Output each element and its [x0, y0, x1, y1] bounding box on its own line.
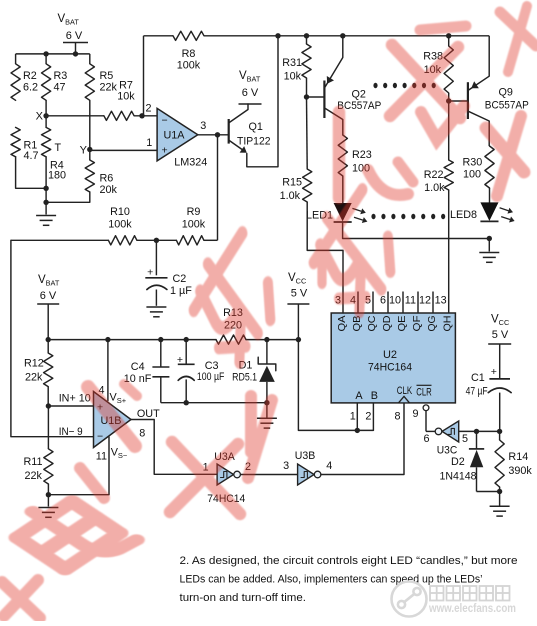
- svg-text:R3: R3: [54, 70, 68, 82]
- node D1 tap: [264, 337, 269, 342]
- node C3 bottom: [184, 400, 189, 405]
- svg-text:R22: R22: [424, 169, 444, 181]
- svg-text:LM324: LM324: [174, 156, 207, 168]
- wire U1B pin11 to R11 bottom: [48, 437, 109, 495]
- svg-text:QH: QH: [443, 316, 454, 332]
- node IN+ junction: [46, 403, 51, 408]
- wire R9 right to output column: [204, 239, 218, 241]
- svg-text:U2: U2: [383, 349, 397, 361]
- svg-text:QF: QF: [412, 316, 423, 332]
- svg-text:22k: 22k: [100, 82, 118, 94]
- svg-text:4.7: 4.7: [24, 150, 39, 162]
- wire U3B to CLK: [321, 403, 404, 475]
- svg-text:+: +: [162, 145, 168, 157]
- svg-text:CLK: CLK: [397, 385, 413, 397]
- svg-text:5 V: 5 V: [291, 288, 308, 300]
- svg-text:10: 10: [389, 295, 401, 307]
- svg-text:C1: C1: [471, 372, 485, 384]
- svg-text:R6: R6: [100, 173, 114, 185]
- svg-text:turn-on and turn-off time.: turn-on and turn-off time.: [180, 592, 307, 604]
- svg-text:Y: Y: [80, 145, 88, 157]
- svg-text:2. As designed, the circuit co: 2. As designed, the circuit controls eig…: [180, 555, 518, 567]
- svg-text:12: 12: [419, 295, 431, 307]
- wire to ground: [266, 403, 268, 418]
- node D2 tap: [474, 429, 479, 434]
- IC U2 74HC164: [331, 313, 455, 403]
- resistor R15: [280, 97, 312, 250]
- svg-text:1.0k: 1.0k: [424, 182, 445, 194]
- svg-text:11: 11: [405, 295, 416, 307]
- svg-text:6 V: 6 V: [242, 87, 259, 99]
- svg-text:IN− 9: IN− 9: [59, 426, 83, 438]
- svg-text:R30: R30: [463, 157, 483, 169]
- wire U1B output to U3A: [131, 420, 217, 475]
- node Y: [87, 147, 92, 152]
- svg-text:6: 6: [423, 433, 429, 445]
- wire R30 to LED8: [489, 188, 491, 203]
- svg-text:3: 3: [283, 460, 289, 472]
- node D1 bottom: [264, 400, 269, 405]
- svg-text:R5: R5: [100, 70, 114, 82]
- node X: [43, 113, 48, 118]
- wire to ground: [499, 492, 501, 506]
- svg-text:R11: R11: [24, 456, 43, 468]
- node C4 tap: [158, 337, 163, 342]
- svg-text:D2: D2: [451, 456, 465, 468]
- svg-text:C2: C2: [173, 273, 187, 285]
- svg-text:22k: 22k: [25, 371, 43, 383]
- svg-text:1: 1: [350, 411, 356, 423]
- svg-text:6 V: 6 V: [66, 30, 83, 42]
- svg-text:R15: R15: [282, 177, 302, 189]
- node A-B tie: [355, 428, 360, 433]
- pin 2 (B) of U2: [365, 403, 373, 431]
- wire to ground: [47, 495, 49, 507]
- transistor Q9 BC557AP: [468, 76, 529, 121]
- svg-text:8: 8: [394, 411, 400, 423]
- node pin2 junction: [139, 113, 144, 118]
- svg-text:10k: 10k: [117, 91, 135, 103]
- wire base junction to Q2: [307, 96, 325, 98]
- svg-text:www.elecfans.com: www.elecfans.com: [428, 603, 516, 615]
- wire LED1 cathode to bottom rail: [343, 222, 490, 239]
- resistor R6: [85, 160, 117, 196]
- node R1-R4: [43, 186, 48, 191]
- resistor R30: [463, 146, 495, 188]
- svg-text:C3: C3: [205, 360, 219, 372]
- node R11 bottom: [46, 492, 51, 497]
- node Vcc tap: [296, 337, 301, 342]
- wire top-left rail: [16, 53, 90, 55]
- svg-text:T: T: [55, 142, 62, 154]
- svg-text:BC557AP: BC557AP: [485, 100, 529, 112]
- wire R9 to R10: [137, 239, 177, 241]
- node output: [215, 132, 220, 137]
- svg-text:74HC164: 74HC164: [368, 362, 412, 374]
- wire R3-R4 column with node X: [45, 100, 47, 127]
- wire R38 to base junction: [448, 93, 450, 101]
- svg-text:1N4148: 1N4148: [440, 470, 477, 482]
- svg-text:Q9: Q9: [499, 87, 513, 99]
- svg-text:QE: QE: [397, 315, 408, 331]
- svg-text:R23: R23: [352, 149, 372, 161]
- wire R22 to U2 pin13: [448, 190, 450, 313]
- wire Q9 emitter riser: [488, 36, 490, 76]
- resistor R8: [173, 31, 204, 71]
- svg-text:5: 5: [462, 433, 468, 445]
- ground (C2): [146, 306, 166, 308]
- pin 5 (QC) of U2: [365, 292, 378, 332]
- dotted row between LED1 and LED8: [371, 214, 445, 219]
- transistor Q2 BC557AP: [324, 58, 381, 120]
- wire R15 jog to pin3: [307, 250, 343, 313]
- inverter U3B 74HC14: [283, 450, 332, 485]
- svg-text:8: 8: [139, 428, 145, 440]
- wire U1A output: [198, 134, 229, 136]
- svg-text:U1A: U1A: [164, 130, 186, 142]
- svg-text:4: 4: [326, 460, 332, 472]
- svg-text:CLR: CLR: [416, 386, 432, 398]
- wire U3A to U3B: [240, 474, 297, 476]
- wire R6 bottom to ground stem: [46, 192, 90, 202]
- op-amp U1A: [145, 103, 207, 169]
- svg-text:R9: R9: [187, 206, 201, 218]
- dotted row between Q2 and Q9: [373, 83, 435, 88]
- pin 1 (A) of U2: [350, 403, 358, 431]
- svg-text:Q1: Q1: [249, 121, 263, 133]
- node R31 top: [304, 33, 309, 38]
- node C1/R14 tap: [497, 429, 502, 434]
- wire pin2 junction up to R8: [143, 36, 145, 116]
- svg-text:2: 2: [365, 411, 371, 423]
- pin 3 (QA) of U2: [335, 295, 348, 332]
- capacitor C1: [466, 366, 512, 431]
- wire R1 bottom to R4 column: [16, 157, 46, 189]
- wire R4 to ground: [45, 157, 47, 215]
- wire R31 to base junction: [306, 78, 308, 97]
- svg-text:6 V: 6 V: [40, 290, 57, 302]
- svg-text:20k: 20k: [100, 184, 118, 196]
- caption text: [180, 555, 518, 604]
- svg-text:R31: R31: [282, 57, 302, 69]
- resistor R7: [104, 79, 135, 120]
- resistor R13: [216, 307, 246, 344]
- resistor R23: [338, 135, 372, 176]
- svg-text:LED8: LED8: [450, 209, 477, 221]
- node C3 tap: [184, 337, 189, 342]
- svg-text:X: X: [36, 111, 44, 123]
- svg-text:100: 100: [463, 169, 481, 181]
- resistor R31: [282, 36, 311, 83]
- resistor R2: [11, 54, 38, 100]
- wire supply rail: [48, 339, 216, 341]
- wire Q9 collector to R30: [488, 121, 490, 146]
- wire R8 to emitter rail: [204, 35, 489, 37]
- wire R10 to left rail: [11, 239, 109, 241]
- power symbol VCC 5V (right): [488, 314, 511, 379]
- ground (divider): [36, 215, 56, 217]
- svg-text:11: 11: [96, 451, 107, 463]
- svg-text:QD: QD: [382, 316, 393, 332]
- node junction rail-VBAT: [73, 51, 78, 56]
- resistor R12: [24, 340, 53, 406]
- LED LED1: [306, 204, 367, 224]
- svg-text:OUT: OUT: [137, 408, 160, 420]
- svg-text:1: 1: [146, 137, 152, 149]
- svg-text:A: A: [355, 390, 363, 402]
- svg-text:180: 180: [48, 170, 66, 182]
- power symbol VBAT 6V (left): [37, 274, 60, 340]
- svg-text:RD5.1: RD5.1: [232, 372, 257, 384]
- transistor Q1 TIP122: [229, 104, 271, 153]
- svg-text:−: −: [162, 114, 168, 126]
- svg-text:47 µF: 47 µF: [466, 386, 488, 398]
- svg-text:22k: 22k: [25, 470, 43, 482]
- wire node X to R7: [46, 115, 104, 117]
- wire U3C input net: [459, 430, 500, 432]
- svg-text:−: −: [97, 430, 103, 442]
- pin 13 (QH) of U2: [435, 295, 454, 332]
- resistor R1: [11, 127, 39, 161]
- svg-text:LEDs can be added. Also, imple: LEDs can be added. Also, implementers ca…: [180, 574, 483, 586]
- pin 10 (QE) of U2: [389, 292, 408, 332]
- svg-text:5 V: 5 V: [492, 329, 509, 341]
- wire output column to R9: [217, 135, 219, 241]
- wire Q2 emitter to rail: [342, 36, 344, 58]
- thermistor R4 label T: [42, 127, 67, 181]
- svg-text:100k: 100k: [182, 219, 206, 231]
- svg-text:+: +: [147, 266, 153, 278]
- LED LED8: [450, 203, 515, 223]
- wire left rail down to IN-: [11, 240, 94, 436]
- pin 6 (QD) of U2: [380, 292, 393, 332]
- svg-text:2: 2: [145, 103, 151, 115]
- wire IN+ to U1B: [48, 405, 93, 407]
- pin 12 (QG) of U2: [419, 292, 438, 332]
- svg-text:QC: QC: [367, 316, 378, 332]
- node emitter rail left: [275, 33, 280, 38]
- capacitor C4: [124, 340, 170, 403]
- ground (R11): [38, 507, 58, 509]
- svg-text:1.0k: 1.0k: [280, 190, 301, 202]
- svg-text:6: 6: [380, 295, 386, 307]
- ground (D1): [257, 417, 277, 419]
- svg-text:U3C: U3C: [437, 445, 458, 457]
- resistor R14: [495, 431, 532, 491]
- resistor R9: [176, 206, 205, 245]
- power symbol VBAT 6V (top): [58, 13, 89, 54]
- inverter U3A 74HC14: [203, 451, 251, 505]
- resistor R10: [108, 206, 137, 245]
- wire to ground: [488, 239, 490, 252]
- resistor R38: [423, 36, 453, 93]
- node R38 top: [446, 33, 451, 38]
- svg-text:R12: R12: [24, 358, 44, 370]
- resistor R11: [24, 406, 54, 495]
- svg-text:100k: 100k: [177, 60, 201, 72]
- node pin4 tap: [105, 337, 110, 342]
- pin 4 (QB) of U2: [350, 292, 363, 332]
- wire R7 to U1A pin2: [134, 115, 157, 117]
- node R6-gnd: [43, 200, 48, 205]
- svg-text:10k: 10k: [284, 70, 302, 82]
- ground (R14): [490, 505, 510, 507]
- svg-text:TIP122: TIP122: [237, 136, 271, 148]
- svg-text:390k: 390k: [508, 465, 532, 477]
- svg-text:QG: QG: [427, 315, 438, 331]
- svg-text:C4: C4: [131, 361, 145, 373]
- svg-text:R10: R10: [110, 206, 130, 218]
- inverter U3C 74HC14 (mirrored): [423, 421, 468, 457]
- resistor R3: [42, 54, 68, 100]
- wire bottom rail C4-C3-D1: [161, 402, 267, 404]
- node C2 tap: [154, 238, 159, 243]
- node VBAT rail: [46, 337, 51, 342]
- svg-text:QA: QA: [337, 315, 348, 331]
- op-amp U1B: [59, 384, 160, 462]
- svg-text:6.2: 6.2: [23, 82, 38, 94]
- pin 9 (CLR) of U2 with bubble: [412, 405, 435, 432]
- node junction rail-R3: [43, 51, 48, 56]
- power symbol VCC 5V (left): [287, 272, 309, 340]
- node LED rail ground: [487, 236, 492, 241]
- gray logo watermark: [392, 582, 427, 617]
- resistor R22: [424, 101, 454, 194]
- svg-text:13: 13: [435, 295, 447, 307]
- capacitor C2: [145, 240, 192, 305]
- svg-text:+: +: [491, 366, 497, 378]
- pin 11 (QF) of U2: [405, 292, 423, 332]
- power symbol VBAT 6V (Q1): [239, 70, 262, 104]
- svg-text:1 µF: 1 µF: [170, 285, 192, 297]
- wire R13 to Vcc corner: [246, 340, 373, 431]
- svg-text:U3B: U3B: [295, 450, 316, 462]
- svg-text:100 µF: 100 µF: [197, 371, 225, 383]
- svg-text:R7: R7: [119, 79, 133, 91]
- svg-text:9: 9: [412, 408, 418, 420]
- node Q9 base junction: [446, 98, 451, 103]
- svg-text:B: B: [371, 390, 378, 402]
- wire Q2 collector to R23: [342, 120, 344, 136]
- svg-text:+: +: [177, 354, 183, 366]
- capacitor C3: [177, 340, 225, 403]
- node Q2 emitter rail: [340, 33, 345, 38]
- resistor R5: [85, 54, 117, 100]
- svg-text:3: 3: [200, 120, 206, 132]
- svg-text:R14: R14: [508, 451, 528, 463]
- wire node Y to U1A pin1: [90, 149, 157, 151]
- svg-text:R2: R2: [23, 70, 37, 82]
- wire R5 column to node Y: [89, 100, 91, 160]
- wire R23 to LED1: [342, 176, 344, 203]
- node R14 bottom: [497, 489, 502, 494]
- svg-text:100k: 100k: [108, 219, 132, 231]
- wire base junction to Q9: [449, 100, 469, 102]
- diode D2 1N4148: [440, 431, 500, 491]
- wire U1B pin4 supply: [107, 340, 109, 402]
- zener diode D1 RD5.1: [232, 340, 276, 403]
- node Q2 base junction: [304, 94, 309, 99]
- ground (LED rail): [479, 252, 499, 254]
- wire Q1 emitter to rail: [247, 36, 278, 167]
- svg-text:47: 47: [54, 82, 66, 94]
- svg-text:R8: R8: [182, 48, 196, 60]
